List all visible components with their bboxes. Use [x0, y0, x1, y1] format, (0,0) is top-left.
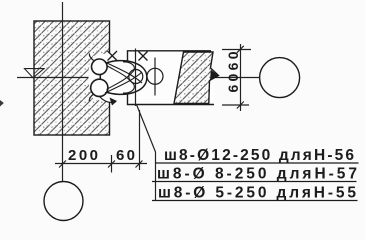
svg-text:200: 200 [68, 147, 98, 164]
